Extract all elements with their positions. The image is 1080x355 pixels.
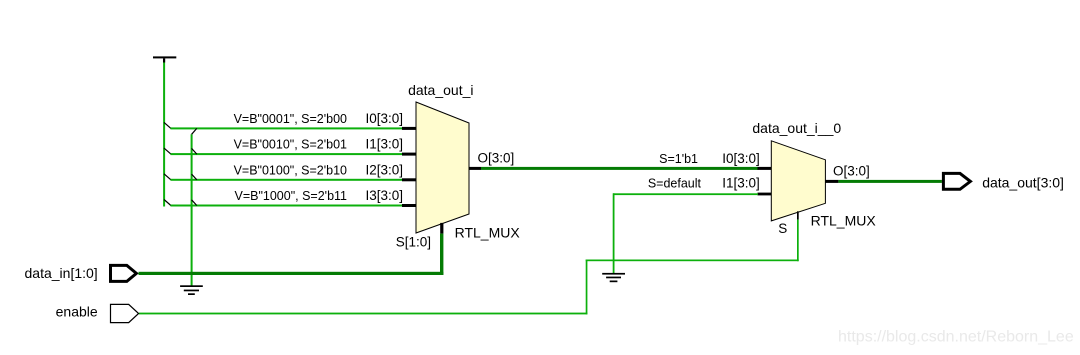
svg-text:S[1:0]: S[1:0] (396, 234, 431, 249)
svg-text:https://blog.csdn.net/Reborn_L: https://blog.csdn.net/Reborn_Lee (838, 329, 1074, 346)
wire: enable net horizontal from port (139, 313, 587, 315)
pin stub I0[3:0] of U1 (402, 127, 417, 130)
svg-text:RTL_MUX: RTL_MUX (811, 212, 877, 228)
wire: data_out output bus (838, 180, 942, 183)
svg-text:I1[3:0]: I1[3:0] (722, 176, 760, 191)
svg-text:S=1'b1: S=1'b1 (659, 152, 698, 166)
wire: I1 constant net horizontal (171, 153, 404, 155)
svg-text:data_out[3:0]: data_out[3:0] (982, 174, 1064, 190)
wire: enable net vertical drop (586, 260, 588, 315)
wire: GND1 branch diagonal to I3 net (192, 200, 197, 206)
wire: GND1 branch diagonal to I2 net (192, 174, 197, 180)
pin stub I0[3:0] of U2 (758, 167, 772, 170)
wire: GND1 branch diagonal from I0 net (192, 128, 197, 134)
svg-text:O[3:0]: O[3:0] (478, 151, 515, 166)
pin stub I1[3:0] of U1 (402, 153, 417, 156)
ground GND2 (602, 273, 625, 282)
power symbol VCC (153, 56, 176, 62)
wire: VCC branch diagonal to I0 net (164, 122, 171, 128)
wire: GND2 vertical net (613, 193, 615, 273)
pin stub O[3:0] of U1 (469, 167, 482, 170)
wire: GND1 branch diagonal to I1 net (192, 148, 197, 154)
mux U1 data_out_i body (416, 102, 469, 233)
svg-text:I0[3:0]: I0[3:0] (722, 151, 760, 166)
svg-text:I3[3:0]: I3[3:0] (365, 188, 403, 203)
svg-text:S=default: S=default (648, 177, 702, 191)
mux U2 data_out_i__0 body (771, 141, 825, 221)
wire: data_out_i output bus (481, 167, 758, 170)
input port data_in[1:0] (111, 265, 137, 281)
wire: I3 constant net horizontal (171, 205, 404, 207)
ground GND1 (180, 285, 203, 295)
svg-text:V=B"0010", S=2'b01: V=B"0010", S=2'b01 (234, 138, 347, 152)
svg-text:V=B"1000", S=2'b11: V=B"1000", S=2'b11 (234, 189, 347, 203)
wire: GND1 vertical net (191, 134, 193, 285)
pin stub O[3:0] of U2 (825, 180, 838, 183)
wire: VCC vertical net (163, 63, 165, 207)
input port enable (111, 304, 139, 322)
pin stub I2[3:0] of U1 (402, 178, 417, 181)
wire: VCC branch diagonal to I2 net (164, 174, 171, 180)
svg-text:enable: enable (56, 303, 98, 319)
svg-text:data_out_i: data_out_i (408, 82, 473, 98)
wire: data_in bus horizontal (139, 272, 444, 275)
wire: VCC branch diagonal to I3 net (164, 200, 171, 206)
pin stub I1[3:0] of U2 (758, 193, 772, 196)
svg-text:S: S (778, 221, 787, 236)
pin stub S[1:0] of U1 (440, 223, 443, 234)
wire: I0 constant net horizontal (171, 127, 404, 129)
svg-text:I0[3:0]: I0[3:0] (365, 111, 403, 126)
svg-text:data_out_i__0: data_out_i__0 (752, 120, 841, 136)
svg-text:V=B"0100", S=2'b10: V=B"0100", S=2'b10 (234, 163, 347, 177)
wire: VCC branch diagonal to I1 net (164, 148, 171, 154)
svg-text:V=B"0001", S=2'b00: V=B"0001", S=2'b00 (234, 112, 347, 126)
svg-text:O[3:0]: O[3:0] (833, 163, 870, 178)
svg-text:RTL_MUX: RTL_MUX (455, 224, 521, 240)
svg-text:I1[3:0]: I1[3:0] (365, 137, 403, 152)
svg-text:data_in[1:0]: data_in[1:0] (25, 265, 98, 281)
wire: S=default constant net horizontal (613, 193, 758, 195)
pin stub S of U2 (797, 211, 799, 219)
svg-text:I2[3:0]: I2[3:0] (365, 162, 403, 177)
pin stub I3[3:0] of U1 (402, 204, 417, 207)
wire: I2 constant net horizontal (171, 179, 404, 181)
output port data_out[3:0] (943, 173, 970, 189)
wire: data_in bus vertical to S pin (440, 234, 443, 275)
wire: enable net horizontal middle (586, 260, 799, 262)
wire: enable net vertical to S pin of U2 (797, 220, 799, 262)
